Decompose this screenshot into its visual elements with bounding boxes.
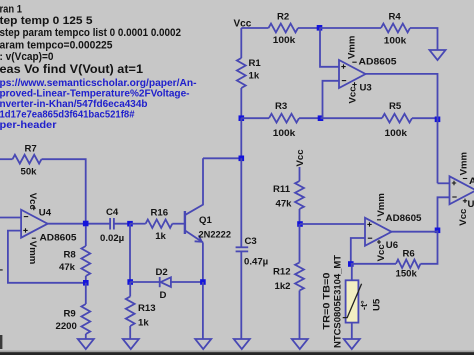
svg-text:U6: U6 <box>386 240 398 251</box>
spice directives text <box>0 4 181 76</box>
svg-text:NTCS0805E3104_MT: NTCS0805E3104_MT <box>333 255 344 348</box>
label U4 <box>39 207 52 218</box>
wire R3 left <box>241 117 269 119</box>
thermistor U5 body <box>346 280 359 322</box>
wire R6 left <box>351 263 396 265</box>
wire R13 top <box>129 282 131 297</box>
label R12 <box>273 267 291 278</box>
wire U3 - input <box>323 81 340 118</box>
op-amp U4 + marker <box>23 228 27 232</box>
label R11 <box>273 184 291 195</box>
thermistor U5 diagonal <box>343 284 362 318</box>
label U3 AD8605 <box>359 57 398 68</box>
svg-text:2N2222: 2N2222 <box>199 229 232 240</box>
svg-text:Q1: Q1 <box>199 215 212 226</box>
op-amp U4 - marker <box>24 216 28 218</box>
wire R5-node <box>412 117 438 119</box>
flag -Vmm of U2 <box>459 152 470 175</box>
wire R9-gnd <box>85 334 87 339</box>
wire R3-node <box>299 117 321 119</box>
wire Vcc-R11 <box>299 167 301 181</box>
label U6 <box>386 240 398 251</box>
svg-text:R9: R9 <box>64 309 76 320</box>
label R3 <box>275 101 287 112</box>
label R2 <box>277 12 289 23</box>
label C3 <box>245 236 257 247</box>
label Q1 part <box>199 229 232 240</box>
wire U5-gnd <box>351 323 353 339</box>
svg-text:0.02µ: 0.02µ <box>100 233 124 244</box>
resistor R16 <box>146 220 173 228</box>
wire R12-gnd <box>299 291 301 340</box>
flag Vcc top <box>234 19 252 30</box>
wire R8-node <box>85 276 87 283</box>
label U5 <box>372 298 383 311</box>
svg-text:D: D <box>160 290 167 301</box>
svg-text:AD8605: AD8605 <box>386 213 423 224</box>
svg-text:0.47µ: 0.47µ <box>244 256 268 267</box>
wire U6 - input <box>351 238 365 264</box>
label R6 <box>403 249 415 260</box>
svg-text:D2: D2 <box>156 267 168 278</box>
label R1 <box>249 58 262 69</box>
op-amp U2 body <box>450 176 474 204</box>
node U6out/R6 <box>435 228 441 234</box>
svg-text:1k: 1k <box>249 71 260 82</box>
svg-text:AD8605: AD8605 <box>469 176 474 187</box>
wire U4 + input feedback <box>8 231 86 283</box>
node R8/R9 <box>83 280 89 286</box>
wire R16-base <box>172 223 184 225</box>
wire R13-gnd <box>129 326 131 339</box>
flag Vcc of U3 <box>348 86 359 104</box>
wire C4-node <box>114 223 130 225</box>
wire Q1e-gnd <box>202 282 204 339</box>
wire D2-node <box>171 281 203 283</box>
label R6 value <box>396 269 418 280</box>
label C4 <box>106 207 119 218</box>
svg-text:R3: R3 <box>275 101 287 112</box>
svg-text:Vmm: Vmm <box>459 152 470 175</box>
node C4/R16/R13 <box>127 221 133 227</box>
svg-text:Vcc: Vcc <box>27 193 38 211</box>
resistor R11 <box>295 181 304 209</box>
svg-text:47k: 47k <box>59 262 76 273</box>
resistor R1 <box>237 58 246 88</box>
svg-text:47k: 47k <box>276 199 293 210</box>
node D2 left <box>127 279 133 285</box>
op-amp U3 body <box>339 60 366 88</box>
svg-text:100k: 100k <box>273 128 296 139</box>
svg-text:Vmm: Vmm <box>347 36 358 59</box>
resistor R4 <box>381 24 410 33</box>
wire R3node-collector node <box>240 118 242 158</box>
svg-text:R5: R5 <box>389 101 402 112</box>
svg-text:1k: 1k <box>155 231 166 242</box>
ground under Q1 <box>195 339 211 349</box>
svg-text:U4: U4 <box>39 207 52 218</box>
label Q1 <box>199 215 212 226</box>
node R1/R3 <box>239 115 245 121</box>
op-amp U2 rail marks <box>463 179 467 204</box>
op-amp U4 rail marks <box>32 206 36 238</box>
svg-text:per-header: per-header <box>0 120 57 131</box>
svg-text:R7: R7 <box>25 144 37 155</box>
ground under R12 <box>292 339 308 349</box>
ground under C3 <box>234 339 250 349</box>
wire R4-corner <box>410 28 438 50</box>
svg-text:-t°: -t° <box>359 300 369 310</box>
wire R1 top <box>240 28 242 58</box>
op-amp U6 + marker <box>367 222 371 226</box>
wire C3 top <box>240 158 242 247</box>
wire U6 output <box>392 231 438 233</box>
resistor R8 <box>81 246 90 276</box>
label TR TB <box>322 273 333 330</box>
svg-text:1k: 1k <box>138 318 149 329</box>
wire R11-node <box>299 209 301 224</box>
op-amp U3 + marker <box>341 64 345 68</box>
wire node-R4 <box>320 27 382 29</box>
capacitor C4 <box>110 218 114 230</box>
svg-text:AD8605: AD8605 <box>40 233 78 244</box>
label R7 value <box>21 167 38 178</box>
net label L clipped <box>0 263 3 274</box>
svg-text:U2: U2 <box>468 199 474 210</box>
flag -Vmm of U6 <box>376 193 387 216</box>
svg-text:: v(Vcap)=0: : v(Vcap)=0 <box>0 51 54 63</box>
svg-text:R2: R2 <box>277 12 289 23</box>
label R9 value <box>56 321 77 332</box>
svg-text:100k: 100k <box>385 128 408 139</box>
wire U4 - input <box>0 217 21 219</box>
op-amp U6 body <box>365 218 392 246</box>
resistor R3 <box>269 114 299 123</box>
wire to D2 <box>130 281 159 283</box>
label D2 type <box>160 290 167 301</box>
wire vcc corner <box>241 27 268 29</box>
svg-text:100k: 100k <box>384 36 407 47</box>
label U4 AD8605 <box>40 233 78 244</box>
wire R7-down <box>42 159 86 223</box>
svg-text:Vcc: Vcc <box>295 149 306 167</box>
wire node down to D2 row <box>129 224 131 282</box>
svg-text:proved-Linear-Temperature%2FVo: proved-Linear-Temperature%2FVoltage- <box>0 88 190 99</box>
wire R1-node <box>240 88 242 118</box>
transistor Q1 collector <box>186 158 203 214</box>
label U2 AD8605 clipped <box>469 176 474 187</box>
svg-text:U3: U3 <box>360 83 372 94</box>
label R3 value <box>273 128 296 139</box>
svg-text:eas Vo find V(Vout) at=1: eas Vo find V(Vout) at=1 <box>0 62 143 76</box>
svg-text:C3: C3 <box>245 236 257 247</box>
svg-text:R16: R16 <box>151 207 169 218</box>
node U4out/R7/R8 <box>83 221 89 227</box>
wire R2-node <box>298 27 320 29</box>
node R5/U3out <box>435 117 441 123</box>
wire U3 output <box>366 74 438 183</box>
label R8 value <box>59 262 76 273</box>
label U2 clipped <box>468 199 474 210</box>
op-amp U6 - marker <box>368 237 372 239</box>
label R11 value <box>276 199 293 210</box>
resistor R13 <box>126 297 135 327</box>
flag Vcc of U6 <box>376 244 387 262</box>
video player bottom bar <box>0 351 474 355</box>
wire collector-node <box>203 157 241 159</box>
svg-text:Vmm: Vmm <box>27 241 38 264</box>
svg-text:Vcc: Vcc <box>348 86 359 104</box>
svg-text:U5: U5 <box>372 298 383 311</box>
resistor R12 <box>295 263 304 291</box>
wire U3 + input <box>320 28 339 67</box>
label C3 value <box>244 256 268 267</box>
svg-text:TR=0 TB=0: TR=0 TB=0 <box>322 273 333 330</box>
url comment text <box>0 78 197 131</box>
flag Vcc of R11 <box>295 149 306 167</box>
label R16 value <box>155 231 166 242</box>
svg-text:L: L <box>0 263 3 274</box>
label R2 value <box>273 35 296 46</box>
node collector/C3 <box>239 156 245 162</box>
wire node-R16 <box>130 223 146 225</box>
flag Vcc of U2 <box>458 208 469 226</box>
svg-text:ran 1: ran 1 <box>0 4 22 16</box>
svg-text:100k: 100k <box>273 35 296 46</box>
wire U2 - input <box>438 197 450 230</box>
svg-text:ps://www.semanticscholar.org/p: ps://www.semanticscholar.org/paper/An- <box>0 78 197 89</box>
node R11/R12/U6+ <box>297 221 303 227</box>
node R3/R5/U3- <box>318 115 324 121</box>
op-amp U3 - marker <box>342 80 346 82</box>
svg-text:aram tempco=0.000225: aram tempco=0.000225 <box>0 39 113 51</box>
label R5 value <box>385 128 408 139</box>
resistor R7 <box>13 155 42 164</box>
label R13 value <box>138 318 149 329</box>
diode D2 <box>160 277 171 287</box>
wire R7 left <box>0 158 13 160</box>
ground under R9 <box>78 339 94 349</box>
flag -Vmm of U3 <box>347 36 358 59</box>
transistor Q1 emitter arrow <box>195 235 202 241</box>
node R2/R4/U3+ <box>317 25 323 31</box>
svg-text:nverter-in-Khan/547fd6eca434b: nverter-in-Khan/547fd6eca434b <box>0 99 148 110</box>
op-amp U2 - marker <box>452 196 456 198</box>
svg-text:150k: 150k <box>396 269 418 280</box>
label D2 <box>156 267 168 278</box>
label R7 <box>25 144 37 155</box>
flag Vcc of U4 <box>27 193 38 211</box>
wire U6 + input <box>300 223 365 225</box>
svg-text:1d17e7ea865d3f641bac521f8#: 1d17e7ea865d3f641bac521f8# <box>0 110 135 121</box>
svg-text:tep temp 0 125 5: tep temp 0 125 5 <box>0 15 93 27</box>
left edge mark <box>0 335 2 349</box>
svg-text:50k: 50k <box>21 167 38 178</box>
resistor R5 <box>382 114 412 123</box>
wire node-R12 <box>299 224 301 263</box>
resistor R6 <box>396 260 421 268</box>
label U5 -t deg <box>359 300 369 310</box>
label R8 <box>64 250 77 261</box>
label U6 AD8605 <box>386 213 423 224</box>
transistor Q1 base bar <box>184 211 186 234</box>
resistor R9 <box>81 304 90 334</box>
wire node-R6 corner <box>421 230 438 263</box>
op-amp U4 body <box>21 210 47 238</box>
op-amp U2 + marker <box>452 181 456 185</box>
label R4 <box>389 12 402 23</box>
label R1 value <box>249 71 260 82</box>
op-amp U6 rail marks <box>377 220 381 244</box>
ground top right <box>430 50 446 60</box>
wire R8 top <box>85 226 87 246</box>
label R16 <box>151 207 169 218</box>
transistor Q1 emitter <box>186 231 203 243</box>
node U6-/R6/U5 <box>348 261 354 267</box>
svg-text:1k2: 1k2 <box>275 281 291 292</box>
ground under R13 <box>123 339 139 349</box>
wire node-R5 <box>321 117 383 119</box>
svg-text:R12: R12 <box>273 267 291 278</box>
wire U2 + input <box>438 182 450 184</box>
label NTCS part <box>333 255 344 348</box>
wire R9 top <box>85 283 87 304</box>
label R13 <box>138 303 156 314</box>
node D2/Q1e <box>200 279 206 285</box>
label C4 value <box>100 233 124 244</box>
wire U5 top <box>351 264 353 280</box>
svg-text:Vcc: Vcc <box>458 208 469 226</box>
svg-text:Vcc: Vcc <box>376 244 387 262</box>
svg-text:AD8605: AD8605 <box>359 57 398 68</box>
label R12 value <box>275 281 291 292</box>
op-amp U3 rail marks <box>352 62 356 86</box>
svg-text:R1: R1 <box>249 58 262 69</box>
wire U4 output <box>47 223 110 225</box>
label R9 <box>64 309 76 320</box>
label R5 <box>389 101 402 112</box>
ground under U5 <box>344 339 360 349</box>
svg-text:step param tempco list 0 0.000: step param tempco list 0 0.0001 0.0002 <box>0 27 181 39</box>
svg-text:2200: 2200 <box>56 321 77 332</box>
resistor R2 <box>269 24 299 33</box>
svg-text:R6: R6 <box>403 249 415 260</box>
svg-text:R8: R8 <box>64 250 77 261</box>
label R4 value <box>384 36 407 47</box>
svg-text:C4: C4 <box>106 207 119 218</box>
flag Vmm of U4 <box>27 241 38 264</box>
capacitor C3 <box>236 247 249 251</box>
wire emitter down <box>202 242 204 282</box>
wire C3-gnd <box>240 251 242 339</box>
label U3 <box>360 83 372 94</box>
svg-text:R4: R4 <box>389 12 402 23</box>
svg-text:R11: R11 <box>273 184 291 195</box>
svg-text:R13: R13 <box>138 303 156 314</box>
